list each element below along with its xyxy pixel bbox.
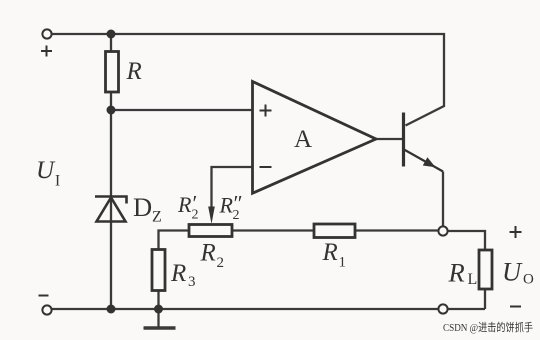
svg-text:R: R: [219, 193, 234, 218]
svg-text:3: 3: [188, 274, 196, 290]
svg-text:A: A: [294, 126, 312, 153]
svg-text:R: R: [200, 240, 216, 267]
svg-text:U: U: [502, 257, 523, 287]
svg-text:R: R: [448, 258, 465, 288]
svg-text:O: O: [523, 272, 534, 288]
svg-text:U: U: [36, 157, 56, 184]
svg-text:R: R: [177, 192, 192, 217]
svg-text:I: I: [55, 173, 60, 190]
svg-text:R: R: [322, 239, 338, 266]
svg-text:D: D: [133, 192, 152, 222]
svg-text:L: L: [468, 271, 478, 288]
svg-text:2: 2: [217, 255, 225, 271]
svg-text:CSDN @进击的饼抓手: CSDN @进击的饼抓手: [443, 320, 533, 334]
svg-text:R: R: [126, 58, 142, 85]
svg-text:R: R: [170, 260, 186, 287]
svg-text:1: 1: [339, 255, 347, 271]
svg-text:Z: Z: [152, 209, 162, 226]
svg-text:″: ″: [234, 191, 243, 216]
svg-text:′: ′: [193, 191, 198, 216]
